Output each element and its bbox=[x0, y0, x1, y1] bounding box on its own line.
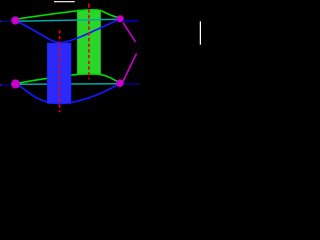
wire white top segment bbox=[54, 1, 75, 3]
face blue rect fill bbox=[48, 43, 71, 103]
wire blue curved edge A to B (hugs blue face top, over green face) bbox=[15, 19, 120, 43]
node B circle bbox=[117, 15, 124, 22]
red dashed axis 2 continuation bbox=[88, 9, 90, 79]
wire navy left top bbox=[0, 20, 13, 22]
wire cyan top A-B (over green face) bbox=[16, 19, 121, 21]
wire navy right of D bbox=[123, 83, 140, 85]
wire magenta B to far vertex bbox=[123, 23, 136, 43]
wire magenta D to far vertex bbox=[123, 54, 137, 82]
wire green curved edge C to D (hugs green face bottom, occluded by blue face) bbox=[17, 74, 120, 84]
wire white right edge segment bbox=[199, 21, 201, 44]
node A circle bbox=[11, 16, 19, 24]
red dashed axis 1 (blue rect center) bbox=[59, 30, 61, 112]
wire green curved edge A to B (hugs green face top) bbox=[16, 10, 120, 19]
wire cyan bottom C-D (occluded by blue face) bbox=[16, 83, 120, 86]
face green quad fill bbox=[78, 10, 101, 74]
wire navy left bottom bbox=[0, 84, 13, 86]
wire blue curved edge C to D (sags under blue face bottom) bbox=[16, 84, 120, 104]
red dashed axis 2 (green quad center) bbox=[88, 3, 90, 8]
node D circle bbox=[116, 79, 124, 87]
node left top entry bbox=[0, 21, 1, 23]
wire blue right of B bbox=[123, 20, 138, 22]
node C circle bbox=[11, 79, 20, 88]
node left bottom entry bbox=[0, 84, 1, 86]
